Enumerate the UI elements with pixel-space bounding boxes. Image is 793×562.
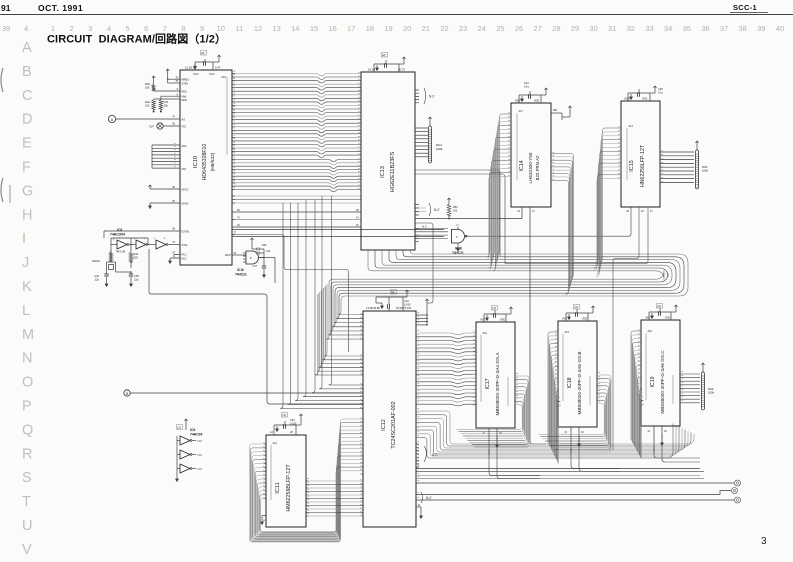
- svg-text:AVSS: AVSS: [182, 201, 189, 205]
- ic IC13 right mid pins long wires: [415, 170, 505, 264]
- ic IC10 inner right bracket: [226, 77, 228, 155]
- svg-text:CIRCUIT DIAGRAM/回路図（1/2）: CIRCUIT DIAGRAM/回路図（1/2）: [47, 32, 226, 46]
- svg-text:SCC-1: SCC-1: [733, 3, 757, 12]
- svg-text:IC9: IC9: [190, 428, 195, 432]
- svg-text:0.1u: 0.1u: [658, 91, 664, 95]
- ic IC10 left AVCC AVSS pins: [148, 185, 188, 208]
- svg-text:27: 27: [533, 24, 541, 33]
- svg-text:33: 33: [645, 24, 653, 33]
- svg-text:IC8: IC8: [117, 228, 122, 232]
- svg-text:K: K: [22, 279, 32, 295]
- svg-text:[2]: [2]: [382, 53, 386, 57]
- wire WAIT pin to IC16: [225, 253, 246, 257]
- wire oscillator loop down to IC12: [149, 249, 363, 404]
- svg-text:30,70: 30,70: [398, 68, 405, 72]
- svg-text:MB838000-20PF-G-3A5 GS.B: MB838000-20PF-G-3A5 GS.B: [577, 351, 582, 414]
- wire IC12 to edge connectors: [416, 481, 734, 503]
- svg-text:4: 4: [24, 24, 28, 33]
- ic IC14 left pins bundle down: [486, 113, 511, 271]
- ic IC13 right pins to gate IC18: [415, 229, 448, 242]
- svg-text:TIO: TIO: [182, 124, 186, 128]
- ic IC10 left AN0-AN7 pins and bus: [152, 143, 187, 171]
- wire verticals in ROM gaps: [0, 0, 1, 1]
- resistor R41 pulldown NMI: [159, 96, 180, 112]
- ic IC17 left pin numbers: [473, 332, 475, 405]
- svg-text:U: U: [22, 518, 32, 534]
- wire IC18 output to IC15 CE pin: [468, 207, 631, 236]
- capacitor C37 below IC16: [252, 258, 275, 284]
- resistor R43 1M: [109, 250, 125, 263]
- resistor R40 pullup RES: [145, 76, 180, 91]
- wire IC13 pin down right of IC13: [415, 223, 433, 303]
- connector circle 1: [735, 480, 741, 486]
- svg-text:IC12: IC12: [381, 419, 387, 431]
- wire IC9 input rail: [176, 419, 188, 481]
- svg-text:T.P: T.P: [149, 125, 154, 129]
- svg-text:8: 8: [181, 24, 185, 33]
- wire IC14 right WE circuit: [551, 106, 572, 120]
- svg-text:22p: 22p: [134, 278, 139, 282]
- svg-text:31: 31: [608, 24, 616, 33]
- ic IC13 body: [361, 72, 415, 250]
- svg-text:V: V: [22, 542, 32, 557]
- resistor R45 on IC16 output: [250, 238, 271, 258]
- ic IC10 left control pins MRES STBY RES NMI: [175, 76, 189, 101]
- svg-text:18: 18: [366, 24, 374, 33]
- svg-text:VDD: VDD: [500, 319, 505, 322]
- wire bundle IC17 right loop to IC18: [456, 374, 529, 447]
- svg-text:N.C: N.C: [198, 467, 203, 471]
- svg-text:C34: C34: [94, 274, 99, 278]
- svg-text:XTAL: XTAL: [182, 243, 189, 247]
- ic IC15 body: [621, 101, 660, 207]
- svg-text:N.C: N.C: [198, 439, 203, 443]
- connector circle 3: [735, 497, 741, 503]
- ic IC14 bottom pins OE CE: [517, 207, 546, 444]
- svg-text:C37: C37: [252, 265, 257, 268]
- svg-text:20: 20: [403, 24, 411, 33]
- resistor R42 pulldown MD2: [145, 99, 180, 113]
- svg-text:M: M: [22, 327, 34, 343]
- svg-text:MD2: MD2: [182, 98, 188, 102]
- svg-text:AN7: AN7: [182, 168, 187, 171]
- svg-text:IC11: IC11: [275, 482, 281, 493]
- gate IC9a inverter: [180, 436, 202, 445]
- svg-text:38: 38: [739, 24, 747, 33]
- svg-text:74HCU04: 74HCU04: [110, 233, 125, 237]
- ic IC18 74HC21 label: [452, 247, 464, 256]
- svg-text:F: F: [22, 160, 31, 176]
- svg-text:Q: Q: [22, 422, 33, 438]
- ic IC19 top VCC cap: [645, 304, 678, 321]
- svg-text:N.C: N.C: [426, 496, 432, 500]
- svg-text:LH532300-Y50: LH532300-Y50: [528, 152, 533, 183]
- svg-text:MB838000-20PF-G-3A6 GS.C: MB838000-20PF-G-3A6 GS.C: [660, 350, 665, 414]
- ic IC17 inner brackets: [480, 335, 482, 402]
- svg-text:VSS: VSS: [645, 317, 650, 320]
- svg-text:A14: A14: [273, 442, 278, 445]
- svg-text:30: 30: [589, 24, 597, 33]
- resistor array RA6: [701, 363, 714, 410]
- svg-text:C44: C44: [524, 81, 529, 85]
- wire bundle IC18 right loop to IC19: [538, 373, 611, 452]
- svg-text:820: 820: [134, 256, 139, 260]
- svg-text:C41: C41: [266, 250, 271, 253]
- ic IC12 right bottom ground: [416, 504, 422, 518]
- svg-text:P: P: [22, 399, 32, 415]
- ic IC14 top VCC cap: [515, 81, 548, 103]
- svg-text:22: 22: [440, 24, 448, 33]
- svg-text:11: 11: [236, 24, 244, 33]
- svg-text:IC16: IC16: [237, 268, 244, 272]
- svg-text:IC17: IC17: [485, 378, 491, 389]
- svg-text:25: 25: [496, 24, 504, 33]
- svg-text:VDD: VDD: [515, 100, 520, 103]
- svg-text:10k: 10k: [164, 104, 169, 108]
- wire IRQ0 long: [232, 236, 444, 238]
- svg-text:36: 36: [701, 24, 709, 33]
- ic IC13 top VCC caps: [368, 53, 406, 73]
- svg-text:IC10: IC10: [193, 156, 199, 168]
- svg-text:R45: R45: [262, 244, 267, 247]
- wire pin77 down: [232, 232, 349, 353]
- ic IC16 label: [235, 268, 247, 277]
- ic IC18 bottom pins: [564, 427, 584, 454]
- svg-text:19: 19: [384, 24, 392, 33]
- svg-text:A19: A19: [483, 332, 488, 335]
- svg-text:15: 15: [310, 24, 318, 33]
- svg-text:[2]: [2]: [493, 306, 497, 310]
- svg-text:12,26,71: 12,26,71: [185, 66, 196, 70]
- svg-text:AVCC: AVCC: [182, 187, 189, 191]
- svg-text:C40: C40: [290, 418, 295, 422]
- svg-text:24: 24: [478, 24, 486, 33]
- svg-text:VSS: VSS: [480, 319, 485, 322]
- wire bundle IC10 to IC13 data bus: [235, 160, 361, 192]
- ic IC13 left pin numbers: [358, 72, 360, 188]
- svg-text:D: D: [22, 112, 32, 128]
- wire ladder IC12 to IC17: [416, 331, 476, 406]
- svg-text:O: O: [22, 375, 33, 391]
- ic IC11 left pin numbers: [263, 443, 266, 499]
- svg-text:C: C: [22, 88, 32, 104]
- left page-edge artifact: [1, 68, 3, 92]
- svg-text:[2]: [2]: [658, 304, 662, 308]
- svg-text:14: 14: [291, 24, 299, 33]
- connector circle 2: [732, 488, 738, 494]
- wire ROM bottom pins to control lines: [489, 434, 700, 479]
- svg-text:B2S.PRM.A2: B2S.PRM.A2: [535, 155, 540, 180]
- ic IC11 bottom-left pin ground: [261, 516, 266, 525]
- svg-text:VCC: VCC: [193, 72, 199, 76]
- gate IC18 74HC21 AND: [452, 225, 469, 251]
- wire bundle IC18 left rise: [548, 332, 561, 464]
- svg-text:A17: A17: [519, 110, 524, 113]
- ic IC12 body: [363, 311, 416, 527]
- svg-text:9: 9: [200, 24, 204, 33]
- svg-text:IC18: IC18: [567, 377, 573, 388]
- ic IC15 top VCC cap: [624, 86, 664, 101]
- svg-text:HN62256LFP-12T: HN62256LFP-12T: [640, 144, 646, 187]
- svg-text:21: 21: [422, 24, 430, 33]
- svg-text:WE: WE: [553, 109, 557, 112]
- svg-text:74HC21: 74HC21: [235, 273, 247, 277]
- gate IC8c inverter: [154, 238, 168, 249]
- capacitor C35: [116, 261, 140, 286]
- svg-text:2: 2: [70, 24, 74, 33]
- svg-text:N.C: N.C: [434, 208, 440, 212]
- wire port bus verticals to IC12 g3: [280, 196, 363, 408]
- resistor array RA5: [695, 141, 708, 189]
- ic IC12 right NC bracket cluster: [416, 442, 438, 467]
- svg-text:34: 34: [664, 24, 672, 33]
- svg-text:35: 35: [683, 24, 691, 33]
- wire IRQ1 long: [232, 229, 444, 231]
- header rule line: [0, 14, 793, 16]
- ic IC10 bottom-left pins 87 88: [169, 252, 188, 264]
- ic IC10 top VCC pins and caps: [185, 51, 221, 77]
- gate IC9b inverter: [180, 450, 202, 459]
- svg-text:VDD: VDD: [642, 98, 647, 101]
- svg-text:10k: 10k: [145, 104, 150, 108]
- svg-text:HM62256BLFP-12T: HM62256BLFP-12T: [286, 464, 292, 512]
- svg-text:NC2: NC2: [182, 258, 188, 261]
- ic IC12 left pin numbers: [360, 313, 363, 516]
- svg-text:28: 28: [552, 24, 560, 33]
- svg-text:C45: C45: [658, 87, 663, 91]
- svg-text:14,94: 14,94: [368, 68, 375, 72]
- svg-text:WAIT: WAIT: [225, 254, 231, 257]
- ruler column numbers: [2, 24, 784, 33]
- svg-text:100k: 100k: [702, 169, 709, 173]
- capacitor C34: [94, 270, 108, 286]
- ic IC15 bottom pins: [505, 207, 653, 450]
- ic IC14 body: [511, 103, 551, 207]
- svg-text:N: N: [22, 351, 32, 367]
- svg-text:L: L: [22, 303, 30, 319]
- svg-text:STBY: STBY: [182, 81, 189, 85]
- test point T.P: [149, 123, 186, 130]
- ic IC19 inner brackets: [645, 333, 647, 400]
- svg-text:100k: 100k: [436, 147, 443, 151]
- svg-text:AN0: AN0: [182, 145, 187, 148]
- svg-text:VCC: VCC: [209, 72, 215, 76]
- svg-text:R41: R41: [164, 100, 169, 104]
- svg-text:R40: R40: [145, 82, 150, 86]
- wire bundle IC19 left rise: [631, 331, 644, 459]
- wire IC12 long control lines under ROMs: [416, 466, 704, 479]
- svg-text:[4]: [4]: [283, 413, 287, 417]
- wire MRES STBY common +5V: [166, 69, 180, 83]
- svg-text:B: B: [22, 64, 32, 80]
- svg-text:MB838000-20PF-G-3A4 GS.A: MB838000-20PF-G-3A4 GS.A: [495, 352, 500, 416]
- ic IC13 right NC pins top: [415, 88, 435, 104]
- svg-text:100: 100: [453, 210, 458, 213]
- wire bundle IC10 to IC13 address bus: [235, 74, 361, 158]
- svg-text:10/16: 10/16: [404, 303, 411, 307]
- wire band U-turn bus lines: [326, 250, 688, 339]
- svg-text:29: 29: [571, 24, 579, 33]
- svg-text:20MHz: 20MHz: [92, 259, 101, 263]
- svg-text:HG62E11B23FS: HG62E11B23FS: [390, 151, 396, 192]
- ic IC19 bottom pins: [647, 426, 667, 453]
- svg-text:R: R: [22, 446, 32, 462]
- ic IC17 body: [476, 322, 515, 428]
- svg-text:T: T: [22, 494, 31, 510]
- svg-text:VSS: VSS: [562, 318, 567, 321]
- ic IC10 body: [180, 70, 232, 265]
- ic IC18 body: [558, 321, 597, 427]
- svg-text:A19: A19: [565, 331, 570, 334]
- svg-text:MRES: MRES: [182, 78, 190, 82]
- ic IC8 74HCU04 label: [110, 228, 125, 237]
- svg-text:A19: A19: [221, 75, 226, 79]
- ic IC10 right address pins: [232, 74, 235, 156]
- ic IC11 inner bracket: [270, 445, 272, 500]
- svg-text:[4]: [4]: [391, 290, 395, 294]
- svg-text:I: I: [22, 231, 26, 247]
- wire single control lines to IC13: [235, 209, 361, 227]
- wire bundle IC12 g4 to IC11 U loop: [250, 419, 364, 542]
- svg-text:10: 10: [217, 24, 225, 33]
- svg-text:IC15: IC15: [629, 160, 635, 171]
- svg-text:S: S: [22, 470, 32, 486]
- gate IC8a inverter: [113, 238, 129, 249]
- svg-text:91: 91: [1, 3, 11, 13]
- gate IC8b inverter: [134, 238, 148, 249]
- svg-text:[2]: [2]: [201, 51, 205, 55]
- ic IC12 top VCC caps: [366, 290, 412, 312]
- svg-text:A19: A19: [648, 330, 653, 333]
- svg-text:[2]: [2]: [178, 426, 182, 430]
- svg-text:VDD: VDD: [534, 100, 539, 103]
- ic IC18 top VCC cap: [562, 305, 595, 322]
- ic IC17 bottom pins: [482, 428, 502, 455]
- connector node B circle: [124, 390, 363, 396]
- svg-text:40: 40: [776, 24, 784, 33]
- svg-text:C35: C35: [134, 274, 139, 278]
- ic IC15 left pins bundle down: [594, 127, 621, 277]
- ic IC9 74HC04 label: [177, 425, 203, 437]
- svg-text:23: 23: [459, 24, 467, 33]
- svg-text:IC18: IC18: [455, 247, 462, 251]
- svg-text:H: H: [22, 207, 32, 223]
- crystal X1 20MHz: [92, 257, 116, 270]
- svg-text:OCT. 1991: OCT. 1991: [38, 3, 83, 13]
- svg-text:74HC04: 74HC04: [190, 433, 203, 437]
- svg-text:32: 32: [627, 24, 635, 33]
- gate IC9c inverter: [180, 464, 202, 473]
- svg-text:R42: R42: [145, 100, 150, 104]
- svg-text:AS: AS: [182, 117, 186, 121]
- svg-text:6: 6: [144, 24, 148, 33]
- svg-text:13,38,63,88: 13,38,63,88: [366, 306, 380, 310]
- ic IC19 left pin numbers: [638, 330, 640, 403]
- wire band lines to IC12 group2: [315, 284, 363, 375]
- svg-text:VDD: VDD: [665, 317, 670, 320]
- svg-text:J: J: [22, 255, 29, 271]
- svg-text:74HC21: 74HC21: [452, 251, 464, 255]
- ic IC14 right pins bundle down: [551, 152, 574, 294]
- svg-text:4: 4: [107, 24, 111, 33]
- svg-text:E: E: [22, 136, 32, 152]
- svg-text:P6.1: P6.1: [182, 254, 188, 257]
- svg-text:N.C: N.C: [432, 453, 438, 457]
- ic IC18 inner brackets: [562, 334, 564, 401]
- ruler row letters: [22, 40, 34, 558]
- svg-text:R44: R44: [134, 252, 139, 256]
- svg-text:22p: 22p: [95, 278, 100, 282]
- svg-text:G: G: [22, 183, 33, 199]
- svg-text:12: 12: [254, 24, 262, 33]
- svg-text:A: A: [22, 40, 32, 56]
- ic IC19 right pins to RA6: [680, 372, 700, 403]
- svg-text:IC13: IC13: [380, 166, 386, 178]
- svg-text:R43 1M: R43 1M: [116, 250, 125, 254]
- ic IC11 right pin numbers: [306, 479, 309, 516]
- ic IC12 right pins group1 +5V: [416, 299, 429, 326]
- svg-text:VDD: VDD: [582, 318, 587, 321]
- svg-text:EXTAL: EXTAL: [182, 229, 191, 233]
- svg-text:7: 7: [163, 24, 167, 33]
- resistor array RA4: [415, 117, 443, 163]
- ic IC10 right control pins: [232, 196, 235, 235]
- ic IC15 inner bracket: [626, 128, 628, 180]
- svg-text:IC19: IC19: [650, 376, 656, 387]
- svg-text:39: 39: [757, 24, 765, 33]
- ic IC14 inner address bracket: [516, 113, 518, 180]
- svg-text:0.1u: 0.1u: [524, 85, 530, 89]
- svg-text:IC14: IC14: [519, 160, 525, 171]
- svg-text:17: 17: [347, 24, 355, 33]
- ic IC11 top VCC cap: [270, 413, 303, 436]
- header SCC-1 underline: [730, 12, 768, 14]
- ic IC18 left pin numbers: [555, 331, 557, 404]
- ic IC19 body: [641, 320, 680, 426]
- svg-text:HD6435328F10: HD6435328F10: [202, 144, 208, 181]
- svg-text:A14: A14: [629, 125, 634, 128]
- svg-text:RES: RES: [182, 89, 188, 93]
- svg-text:10/16: 10/16: [290, 422, 297, 426]
- ic IC10 right data pins: [232, 160, 235, 190]
- gate IC16 74HC21 AND: [243, 249, 264, 264]
- ic IC13 right lower NC bracket: [415, 203, 440, 216]
- svg-text:(H8/532): (H8/532): [210, 152, 216, 171]
- svg-text:5: 5: [126, 24, 130, 33]
- svg-text:N.C: N.C: [198, 453, 203, 457]
- svg-text:10k: 10k: [145, 86, 150, 90]
- wire ladder IC11 right to IC12 g5: [306, 481, 363, 516]
- wire IC13 pin with pullup R50: [415, 198, 522, 219]
- svg-text:GND: GND: [624, 98, 630, 101]
- svg-text:TC24SC201AF-002: TC24SC201AF-002: [391, 401, 397, 448]
- wire bundle IC12 lower right to ROM loop bus: [416, 409, 694, 458]
- ic IC17 top VCC cap: [480, 306, 513, 323]
- ic IC11 body: [266, 435, 306, 527]
- svg-text:[2]: [2]: [575, 305, 579, 309]
- svg-text:13: 13: [273, 24, 281, 33]
- node A connector circle: [108, 115, 185, 122]
- svg-text:100k: 100k: [708, 391, 715, 395]
- svg-text:C42: C42: [404, 299, 409, 303]
- svg-text:N.C: N.C: [429, 94, 435, 98]
- svg-text:3: 3: [761, 536, 767, 547]
- wire bundle IC10 control to IC13: [235, 196, 361, 203]
- svg-text:3: 3: [88, 24, 92, 33]
- svg-text:N.C: N.C: [422, 225, 427, 229]
- svg-text:5,47: 5,47: [215, 66, 221, 70]
- svg-text:39: 39: [2, 24, 10, 33]
